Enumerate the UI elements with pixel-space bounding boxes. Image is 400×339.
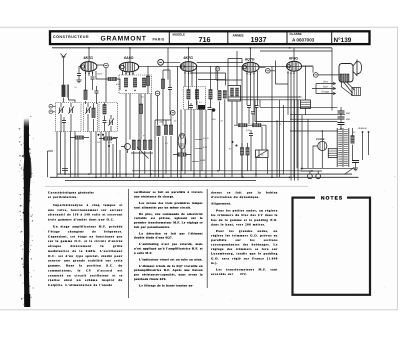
mains tick symbol — [62, 169, 68, 175]
svg-text:GRAMMONT: GRAMMONT — [101, 35, 147, 42]
tube V4 6Q7G — [242, 62, 259, 72]
speaker wire arrows — [316, 84, 335, 94]
svg-text:Vert: Vert — [323, 81, 328, 84]
wires R17 C10 — [163, 70, 170, 120]
text column 1 — [48, 190, 123, 290]
svg-text:ANNEE: ANNEE — [233, 33, 244, 37]
neon indicator blob — [212, 108, 216, 112]
battery terminal dots — [362, 131, 364, 133]
svg-text:8MF: 8MF — [346, 112, 351, 115]
capacitor C3 — [189, 106, 193, 108]
svg-text:6K7G: 6K7G — [184, 56, 194, 60]
tone box diagonal — [256, 150, 269, 158]
page right edge — [397, 27, 399, 310]
wire R16 leads — [147, 66, 149, 93]
wires MF2 — [220, 99, 225, 177]
IF/osc block box (dashed) under tube2 — [119, 75, 152, 94]
wire: verticals below osc box — [126, 94, 151, 178]
coil L2 antenna secondary — [62, 92, 65, 97]
jack contacts — [121, 147, 128, 154]
capacitor C8 — [249, 134, 253, 136]
wire under caps — [249, 108, 257, 125]
wires inside box2 — [88, 103, 94, 132]
wires filter caps — [340, 107, 342, 129]
jack circle — [125, 144, 131, 150]
volume potentiometer block — [132, 140, 135, 150]
wire: coil to tuner box — [64, 98, 76, 103]
coil L1 antenna primary — [62, 85, 65, 95]
wire terminal P down — [217, 71, 219, 90]
svg-text:6Q7G: 6Q7G — [245, 58, 255, 62]
wire tube5 pins — [288, 66, 313, 177]
page top edge — [0, 26, 398, 28]
IF transformer MF2 windings — [218, 91, 221, 101]
speaker terminal strip — [352, 88, 361, 96]
terminal G3 (circled) — [158, 59, 164, 65]
rectifier tube 5Y3GB — [318, 141, 327, 150]
wire horizontals right section — [290, 115, 345, 131]
electrolytic can capacitor — [178, 133, 186, 149]
wire terminal HP feed — [313, 74, 339, 76]
wire R23 — [140, 94, 142, 140]
core of antenna transformer — [67, 85, 68, 98]
resistor R15 — [351, 136, 354, 144]
resistor R23 — [139, 104, 142, 114]
field coil block — [301, 100, 311, 109]
wire: second top bus — [260, 50, 332, 52]
can cap top circle — [180, 135, 183, 138]
IF transformer MF1 box (dashed) — [184, 87, 206, 110]
winding in box b — [236, 88, 239, 96]
svg-text:6K7G: 6K7G — [84, 56, 94, 60]
tube V2 6A8G — [119, 62, 138, 72]
svg-text:716: 716 — [199, 35, 211, 44]
tube V1 6K7G — [81, 62, 97, 72]
bottom faint rule — [45, 185, 308, 187]
power transformer core — [337, 128, 349, 167]
svg-text:Rouge: Rouge — [322, 91, 330, 94]
wire R13 R14 leads — [234, 125, 266, 150]
variable capacitor CV2 — [85, 106, 91, 113]
speaker flexible leads — [342, 82, 355, 95]
variable capacitor CV1b — [68, 106, 74, 113]
wires inside box3 — [105, 103, 112, 132]
grid cap terminal G1 — [104, 63, 109, 68]
output transformer inside speaker — [340, 74, 349, 82]
tube V3 6K7G — [180, 62, 196, 72]
terminal N (circled) — [171, 111, 176, 116]
svg-text:5Y3GB: 5Y3GB — [316, 138, 325, 141]
wire tube2 pins down — [123, 71, 134, 75]
winding MF1b — [195, 90, 198, 100]
tuner block box 2 (dashed) — [84, 103, 98, 132]
terminal under tube4 (circled) — [266, 69, 271, 74]
wire R9 leads — [70, 138, 118, 145]
tube V3 pin dots — [184, 72, 192, 74]
resistor R4 — [133, 78, 136, 87]
tuner block box 1 (dashed) — [56, 103, 82, 132]
bottom bus 1 — [132, 170, 312, 172]
wire terminal M down — [157, 96, 159, 125]
dial lamp 1 — [308, 174, 313, 179]
lead dots — [351, 89, 355, 96]
resistor R20 — [178, 153, 187, 156]
wires inside box1 — [53, 103, 71, 132]
filter capacitor 2 — [338, 117, 345, 119]
svg-text:Batterie: Batterie — [359, 127, 368, 130]
filter capacitor bank — [338, 111, 345, 113]
antenna — [61, 54, 67, 65]
resistor R17 — [161, 79, 164, 89]
capacitor C4 — [208, 108, 212, 110]
tube V5 6F6G — [286, 61, 301, 71]
wire C8 — [250, 130, 252, 171]
variable capacitor CV1 — [58, 106, 64, 113]
svg-text:CONSTRUCTEUR: CONSTRUCTEUR — [53, 35, 89, 39]
svg-text:1MΩ: 1MΩ — [159, 121, 164, 124]
text column 3 — [211, 190, 278, 278]
wire: top bus drops to tubes — [89, 48, 332, 111]
svg-text:N°139: N°139 — [334, 37, 352, 44]
wires R21 R22 — [242, 143, 248, 177]
svg-text:PARIS: PARIS — [153, 38, 166, 42]
wires tube3 down into MF1 — [185, 71, 200, 177]
resistor R18 — [209, 90, 212, 100]
variable capacitor CV3 — [108, 118, 114, 125]
capacitor C2b — [95, 91, 99, 93]
tuner block box 3 (dashed) — [99, 103, 118, 132]
scanner gutter shadow band — [19, 116, 35, 307]
wiper arrow of potentiometer — [131, 147, 153, 159]
rectifier hatching — [320, 141, 325, 150]
switch contacts — [98, 134, 100, 136]
wire tube1 grid to terminal — [97, 64, 104, 66]
svg-text:470 Ω: 470 Ω — [203, 137, 209, 140]
capacitor C5 — [247, 106, 251, 108]
wires speaker arrows from left — [312, 84, 316, 94]
wire R18 — [210, 66, 212, 107]
transformer secondary winding — [344, 130, 348, 166]
tube V2 pin dots — [125, 73, 133, 75]
tube V1 pin dots — [85, 72, 93, 74]
wire: antenna lead-in — [63, 64, 65, 85]
oscillator coil L3 — [103, 105, 106, 115]
resistor R22 — [246, 148, 249, 156]
capacitor C10 — [168, 88, 172, 90]
wire C2b — [96, 86, 98, 104]
text column 2 — [134, 190, 203, 290]
resistor R9 — [75, 136, 84, 139]
padding resistor in box2 — [92, 108, 95, 118]
svg-text:Noir: Noir — [323, 86, 328, 89]
page bottom edge — [0, 309, 398, 311]
wire under C2 — [92, 79, 94, 90]
wire tube1 to C1 — [79, 67, 81, 80]
choke hatching — [328, 151, 337, 155]
speaker body (field magnet) — [339, 64, 353, 83]
separator rule between col1/col2 — [128, 189, 130, 298]
field coil hatching — [301, 102, 311, 106]
bottom bus 4 — [65, 180, 256, 182]
wire: top HT bus — [52, 47, 332, 49]
filter capacitor 3 — [338, 123, 345, 125]
resistor R2 cathode — [84, 90, 87, 100]
wire R15 — [352, 128, 354, 160]
can cap hatch — [179, 144, 185, 146]
separator rule between col2/col3 — [206, 189, 208, 288]
resistor R16 — [146, 76, 149, 86]
detector diode blob — [198, 105, 205, 110]
wire right verticals — [291, 100, 308, 181]
wire R19 leads — [99, 139, 117, 178]
capacitor C9 electrolytic — [352, 161, 359, 163]
svg-text:A 0607003: A 0607003 — [292, 38, 315, 43]
winding in box a — [231, 88, 234, 96]
resistor R14 — [253, 124, 262, 127]
wires field coil — [305, 66, 307, 114]
antenna coil dark overlay — [62, 85, 66, 97]
svg-text:1937: 1937 — [251, 35, 267, 44]
wire: vertical to diode box — [236, 51, 238, 86]
dial lamp 2 — [316, 174, 321, 179]
wire: long vertical from H2 — [178, 66, 182, 177]
svg-text:P.O.: P.O. — [97, 141, 101, 144]
battery leads — [363, 132, 369, 160]
scan noise speckle — [40, 36, 395, 305]
resistor R10 — [157, 126, 160, 136]
wires below volume block — [134, 151, 151, 177]
wire tube1 cathode down — [86, 71, 93, 105]
junction dots in box — [125, 90, 126, 91]
terminal HP (circled) — [314, 73, 319, 78]
ground PSU — [353, 168, 358, 171]
wires around can cap — [173, 149, 191, 171]
lamp stubs — [310, 171, 318, 174]
wire extra verticals right — [216, 66, 284, 177]
resistor R6 — [138, 140, 141, 150]
svg-text:G.O.: G.O. — [108, 141, 113, 144]
resistor R1 — [108, 77, 117, 80]
filter choke — [328, 149, 337, 158]
terminal P (circled) — [216, 67, 220, 71]
resistor R12 — [169, 125, 172, 135]
svg-text:6F6G: 6F6G — [289, 57, 298, 61]
terminal T (circled) — [49, 110, 53, 114]
wires near tone box — [256, 66, 277, 177]
wire: left tuner verticals to bus — [57, 132, 120, 178]
resistor R7 — [143, 140, 146, 150]
NOTES box — [293, 198, 371, 295]
arrowheads — [333, 82, 336, 94]
transformer primary winding — [338, 130, 342, 166]
resistor R13 — [239, 124, 248, 127]
terminal A (circled) — [49, 104, 53, 108]
value labels scatter — [75, 73, 357, 146]
trimmer in box3 — [103, 121, 107, 123]
svg-text:NOTES: NOTES — [321, 195, 343, 201]
resistor R11 — [164, 125, 167, 135]
svg-text:6A8G: 6A8G — [124, 56, 134, 60]
bottom bus 2 — [57, 173, 352, 175]
wires around detector — [191, 66, 212, 177]
svg-text:8MF: 8MF — [346, 118, 351, 121]
terminal M (circled) — [155, 91, 160, 96]
resistor R8 — [149, 140, 152, 150]
wires rectifier — [313, 131, 322, 168]
wire left margin vertical — [48, 151, 54, 177]
svg-text:5.000: 5.000 — [200, 159, 206, 162]
wire bottom PSU line — [301, 168, 357, 171]
header table outer box — [50, 31, 370, 44]
transformer hatch — [340, 74, 349, 82]
wires in mid cluster — [155, 116, 171, 178]
wire R1 leads — [96, 71, 120, 90]
tube V4 pin dots — [246, 73, 254, 75]
winding MF1a — [187, 90, 190, 100]
diagonal jumper near PSU — [344, 168, 354, 175]
wire: main grid line H2 — [139, 65, 312, 67]
svg-text:MODÈLE: MODÈLE — [173, 32, 185, 36]
speaker cone — [353, 60, 362, 77]
capacitor C1 grid — [77, 74, 81, 76]
winding MF2b — [223, 91, 226, 99]
resistor R3 — [124, 78, 127, 87]
trimmer capacitor — [62, 121, 66, 123]
ground under C1 — [76, 80, 81, 83]
capacitor C2 — [91, 77, 95, 79]
wire horizontals mid-right — [216, 80, 338, 122]
header cell separators — [169, 32, 331, 45]
wire terminal down — [105, 68, 107, 103]
wire tube3 grid to terminal — [164, 48, 244, 86]
wire C9 to ground — [355, 163, 357, 168]
bottom bus 3 — [50, 176, 359, 178]
capacitor C7 — [251, 112, 255, 114]
resistor R21 — [240, 148, 243, 156]
resistor R19 — [104, 137, 113, 140]
svg-text:CLASSE: CLASSE — [290, 32, 302, 36]
diode filter box — [228, 86, 241, 102]
wire tube4 pins — [242, 61, 276, 178]
wires below box — [228, 59, 242, 178]
capacitor C6 — [255, 106, 259, 108]
tone box — [256, 150, 269, 158]
tube V5 pin dots — [287, 72, 294, 74]
AVC contacts — [232, 141, 234, 143]
resistor R5 — [142, 78, 145, 87]
terminal strip hatch — [354, 88, 358, 96]
